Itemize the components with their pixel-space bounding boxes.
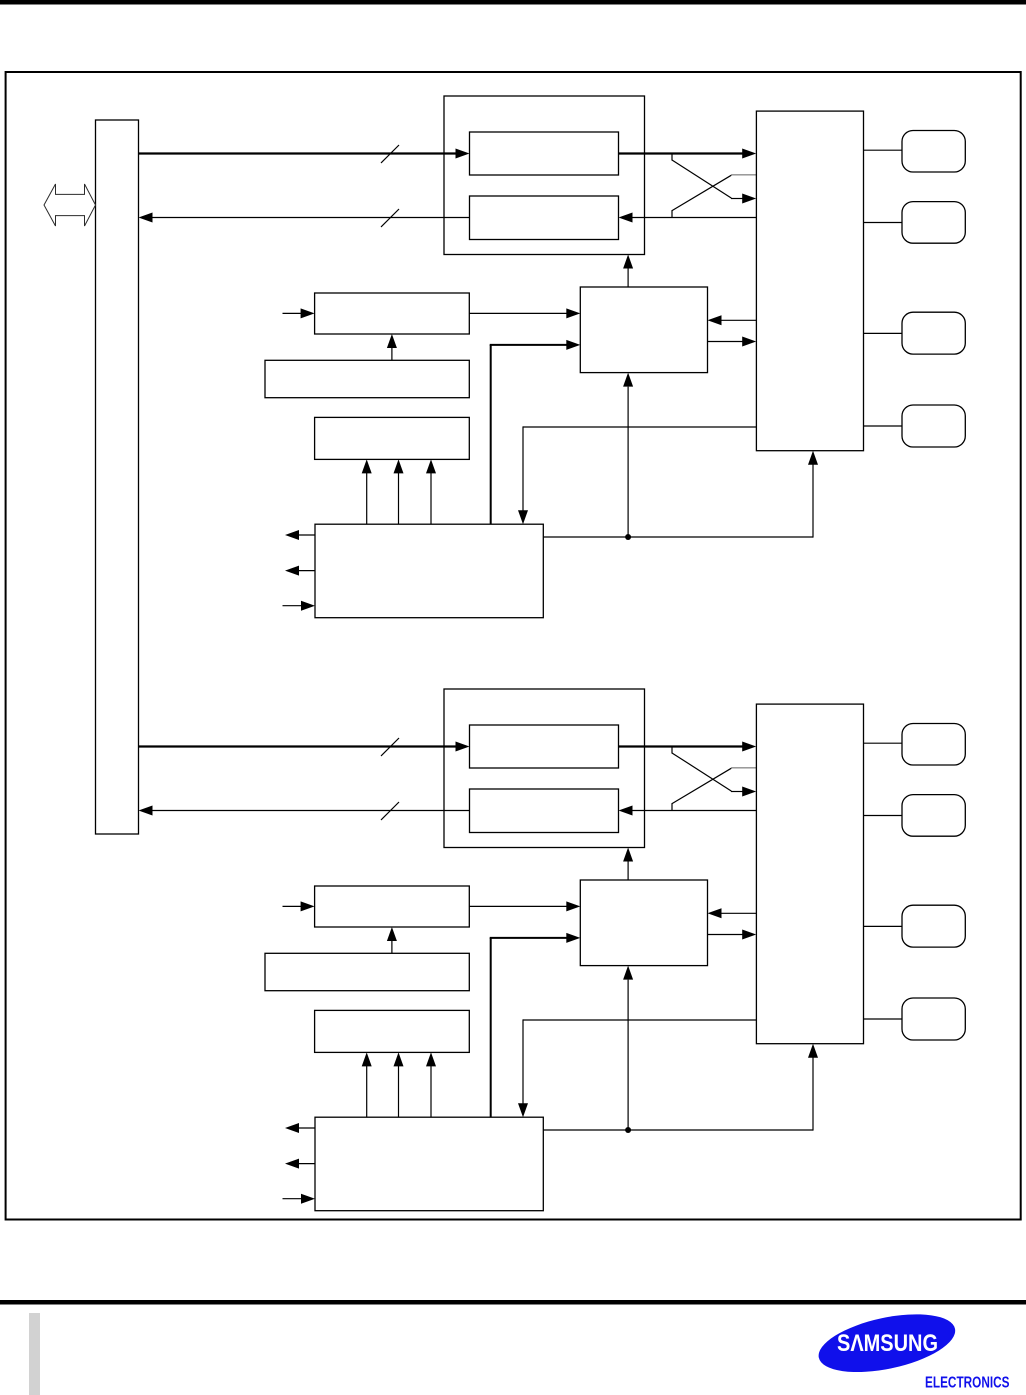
control unit UART1 <box>580 880 707 966</box>
TxD pad UART1 <box>902 724 965 766</box>
junction dot UART1 <box>625 1127 631 1133</box>
svg-text:SΛMSUNG: SΛMSUNG <box>837 1330 938 1357</box>
interrupt input wire UART0 <box>283 605 303 607</box>
wire control unit to buffer block UART1 <box>627 861 629 881</box>
wire IO unit feedback to interrupt block UART1 <box>523 1019 756 1021</box>
tx rx buffer outer block UART0 <box>444 96 645 255</box>
interrupt output wire 1 UART0 <box>298 534 315 536</box>
wire IO unit to RxD pad UART1 <box>864 815 903 817</box>
clock source select block UART1 <box>265 953 469 990</box>
wire receive buffer to data bus UART0 <box>152 217 470 219</box>
interrupt output wire 2 UART0 <box>298 570 315 572</box>
interrupt and status block UART1 <box>315 1117 543 1211</box>
wire IO unit feedback to interrupt block UART0 <box>523 426 756 428</box>
RxD pad UART1 <box>902 795 965 837</box>
footer margin bar <box>29 1313 40 1395</box>
wire baud generator to control unit UART1 <box>469 905 567 907</box>
baud generator input wire UART1 <box>283 905 302 907</box>
junction dot UART0 <box>625 534 631 540</box>
crossover branch up UART1 <box>671 804 673 811</box>
Samsung logo ellipse <box>814 1304 961 1383</box>
bus width slash on TxD wire UART0 <box>381 145 399 163</box>
clock source select block UART0 <box>265 360 469 397</box>
wire clock select to baud generator UART0 <box>391 347 393 360</box>
wire clock select to baud generator UART1 <box>391 940 393 953</box>
wire control unit to buffer block UART0 <box>627 268 629 288</box>
interrupt output wire 1 UART1 <box>298 1127 315 1129</box>
IO unit block UART0 <box>756 111 863 451</box>
nCTS pad UART1 <box>902 905 965 947</box>
wire IO unit to TxD pad UART0 <box>864 149 903 151</box>
control unit UART0 <box>580 287 707 373</box>
receive buffer register UART1 <box>470 789 619 833</box>
wire status to control unit UART1 <box>627 980 629 1130</box>
crossover branch down UART1 <box>671 748 673 754</box>
baud rate generator UART0 <box>315 293 470 334</box>
wire IO unit to control unit UART1 <box>722 912 757 914</box>
wire control to divisor latch 3 UART1 <box>430 1065 432 1117</box>
wire IO unit to nRTS pad UART1 <box>864 1018 903 1020</box>
bidirectional bus arrow <box>44 184 96 226</box>
nRTS pad UART0 <box>902 405 965 447</box>
wire IO unit to TxD pad UART1 <box>864 742 903 744</box>
bus width slash on RxD wire UART1 <box>381 802 399 820</box>
nRTS pad UART1 <box>902 998 965 1040</box>
wire status to control unit UART0 <box>627 387 629 537</box>
wire IO unit to control unit UART0 <box>722 319 757 321</box>
nCTS pad UART0 <box>902 312 965 354</box>
crossover branch up UART0 <box>671 211 673 218</box>
transmit buffer register UART0 <box>470 132 619 175</box>
baud rate generator UART1 <box>315 886 470 927</box>
wire receive buffer to data bus UART1 <box>152 810 470 812</box>
wire control to divisor latch 1 UART1 <box>366 1065 368 1117</box>
interrupt input wire UART1 <box>283 1198 303 1200</box>
footer rule <box>0 1300 1026 1305</box>
wire baud generator to control unit UART0 <box>469 312 567 314</box>
TxD pad UART0 <box>902 131 965 173</box>
wire transmit buffer to IO unit UART1 <box>619 745 743 747</box>
receive buffer register UART0 <box>470 196 619 240</box>
wire IO unit to receive buffer UART0 <box>632 217 757 219</box>
wire control to divisor latch 2 UART1 <box>398 1065 400 1117</box>
transmit buffer register UART1 <box>470 725 619 768</box>
wire control to divisor latch 1 UART0 <box>366 472 368 524</box>
wire IO unit to nRTS pad UART0 <box>864 425 903 427</box>
wire control unit to IO unit UART0 <box>708 341 744 343</box>
wire TxD data bus to transmit buffer UART1 <box>139 745 457 747</box>
svg-text:ELECTRONICS: ELECTRONICS <box>925 1375 1010 1392</box>
data bus bar <box>96 120 139 834</box>
tx rx buffer outer block UART1 <box>444 689 645 848</box>
interrupt output wire 2 UART1 <box>298 1163 315 1165</box>
wire IO unit to RxD pad UART0 <box>864 222 903 224</box>
divisor latch block UART0 <box>315 417 470 459</box>
divisor latch block UART1 <box>315 1010 470 1052</box>
wire TxD data bus to transmit buffer UART0 <box>139 152 457 154</box>
wire IO unit to nCTS pad UART0 <box>864 332 903 334</box>
RxD pad UART0 <box>902 202 965 244</box>
control register riser wire UART1 <box>490 938 492 1117</box>
page top rule <box>0 0 1026 5</box>
baud generator input wire UART0 <box>283 312 302 314</box>
wire control to divisor latch 2 UART0 <box>398 472 400 524</box>
crossover branch down UART0 <box>671 155 673 161</box>
wire control unit to IO unit UART1 <box>708 934 744 936</box>
bus width slash on TxD wire UART1 <box>381 738 399 756</box>
IO unit block UART1 <box>756 704 863 1044</box>
status bus wire to IO unit UART0 <box>543 536 813 538</box>
wire control to divisor latch 3 UART0 <box>430 472 432 524</box>
wire IO unit to nCTS pad UART1 <box>864 925 903 927</box>
interrupt and status block UART0 <box>315 524 543 618</box>
wire transmit buffer to IO unit UART0 <box>619 152 743 154</box>
control register riser wire UART0 <box>490 345 492 524</box>
wire IO unit to receive buffer UART1 <box>632 810 757 812</box>
bus width slash on RxD wire UART0 <box>381 209 399 227</box>
status bus wire to IO unit UART1 <box>543 1129 813 1131</box>
